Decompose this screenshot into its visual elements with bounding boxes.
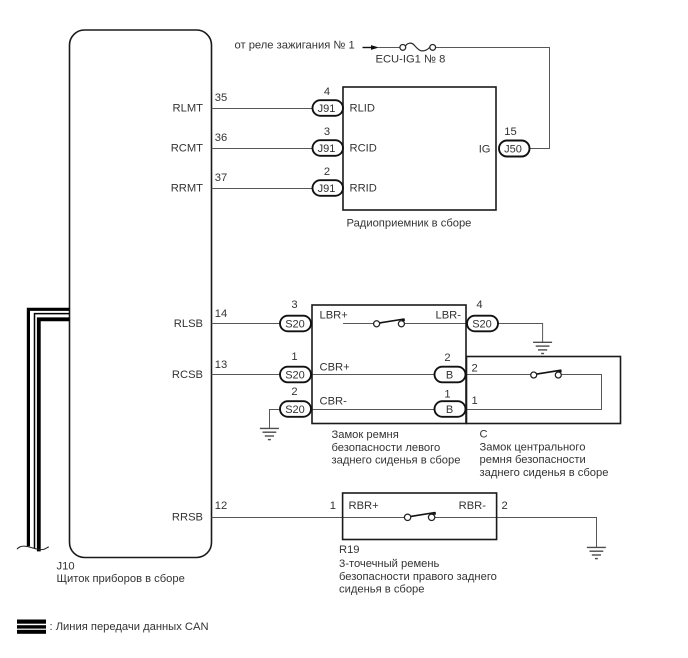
connector J50 pin15 [499,141,530,157]
svg-text:безопасности левого: безопасности левого [332,442,441,454]
svg-text:Щиток приборов в сборе: Щиток приборов в сборе [57,573,185,585]
svg-text:CBR-: CBR- [320,396,348,408]
combination meter block J10 [70,30,212,558]
svg-text:заднего сиденья в сборе: заднего сиденья в сборе [332,455,461,467]
svg-text:J91: J91 [318,183,336,195]
connector S20 pin3 [280,316,311,332]
svg-text:36: 36 [215,132,227,144]
wire RCSB row [212,374,282,376]
svg-text:заднего сиденья в сборе: заднего сиденья в сборе [480,467,609,479]
svg-text:15: 15 [504,126,516,138]
connector J91 pin4 [313,100,344,116]
connector J91 pin2 [313,180,344,196]
svg-text:3: 3 [324,126,330,138]
svg-text:RRSB: RRSB [172,512,203,524]
wire CBR+ row [311,374,435,376]
svg-text:сиденья в сборе: сиденья в сборе [339,584,425,596]
wire LBR+ inside belt box [343,323,374,325]
svg-text:RCID: RCID [350,143,377,155]
ground bottom right [587,547,606,558]
svg-text:RLSB: RLSB [174,318,203,330]
R19 seat belt box [343,493,497,540]
svg-text:J50: J50 [504,144,522,156]
svg-text:Радиоприемник в сборе: Радиоприемник в сборе [347,218,472,230]
svg-text:12: 12 [215,500,227,512]
wire LBR- to S20 pin4 [404,323,467,325]
svg-text:3: 3 [291,299,297,311]
svg-text:S20: S20 [285,319,305,331]
wire RRMT row [212,188,314,190]
CAN bus line middle stripe [35,314,70,549]
svg-text:RRMT: RRMT [171,183,203,195]
svg-text:35: 35 [215,92,227,104]
svg-text:2: 2 [291,386,297,398]
svg-text:1: 1 [330,500,336,512]
svg-text:14: 14 [215,308,227,320]
wire C box switch to right loop [466,375,602,410]
svg-text:J10: J10 [57,561,75,573]
wire CBR- row [311,409,435,411]
wire RBR+ inside R19 [343,517,405,519]
svg-text:IG: IG [479,144,491,156]
svg-text:RBR+: RBR+ [349,500,379,512]
svg-text:S20: S20 [472,319,492,331]
svg-text:безопасности правого заднего: безопасности правого заднего [339,571,497,583]
fuse ECU-IG1 [400,45,406,51]
CAN bus line outer stripe [28,309,69,546]
svg-text:S20: S20 [285,404,305,416]
svg-text:1: 1 [444,389,450,401]
svg-text:CBR+: CBR+ [320,362,350,374]
connector B pin1 [435,401,466,417]
svg-text:1: 1 [291,351,297,363]
svg-text:C: C [480,429,488,441]
connector J91 pin3 [313,140,344,156]
svg-text:2: 2 [444,352,450,364]
wire C box pin2 to switch [466,374,531,376]
svg-text:RBR-: RBR- [459,500,487,512]
connector S20 pin4 [467,316,498,332]
svg-text:LBR+: LBR+ [320,310,348,322]
wire CBR- to ground [270,410,281,429]
wire RBR- to ground [435,518,597,548]
ground right of S20 pin4 [533,342,552,353]
switch in C box [531,372,537,378]
wire RLSB row [212,323,282,325]
svg-text:1: 1 [472,395,478,407]
connector B pin2 [435,367,466,383]
svg-text:: Линия передачи данных CAN: : Линия передачи данных CAN [50,621,209,633]
svg-text:RLID: RLID [350,103,376,115]
svg-text:J91: J91 [318,143,336,155]
center seat belt buckle C box [467,357,621,424]
rear seat belt buckle LH box [312,305,466,424]
svg-text:RCSB: RCSB [172,369,203,381]
svg-text:RCMT: RCMT [171,143,203,155]
svg-text:2: 2 [472,363,478,375]
svg-text:4: 4 [476,299,482,311]
svg-text:J91: J91 [318,103,336,115]
svg-text:ремня безопасности: ремня безопасности [480,454,586,466]
svg-text:37: 37 [215,172,227,184]
switch in LBR row [374,321,380,327]
connector S20 pin1 [280,367,311,383]
wire RCMT row [212,148,314,150]
svg-text:RLMT: RLMT [173,103,204,115]
svg-text:3-точечный ремень: 3-точечный ремень [339,558,440,570]
wire S20 pin4 to ground [498,324,543,343]
svg-text:от реле зажигания № 1: от реле зажигания № 1 [235,40,355,52]
CAN bus line inner stripe [39,319,70,551]
CAN bus torn-end wave [17,546,49,550]
radio receiver box [343,87,496,210]
svg-text:B: B [446,404,453,416]
wire fuse to corner and down to J50 [436,48,550,149]
svg-text:S20: S20 [285,370,305,382]
svg-text:4: 4 [324,86,330,98]
legend CAN bars [17,620,46,634]
svg-text:LBR-: LBR- [436,310,462,322]
svg-text:2: 2 [324,166,330,178]
wire arrow tip to fuse [379,47,401,49]
svg-text:B: B [446,370,453,382]
svg-text:2: 2 [502,500,508,512]
connector S20 pin2 [280,401,311,417]
arrow from ignition relay [363,47,372,49]
wire RRSB row [212,517,343,519]
svg-text:R19: R19 [339,544,360,556]
svg-text:Замок ремня: Замок ремня [332,429,399,441]
svg-text:ECU-IG1 № 8: ECU-IG1 № 8 [376,54,446,66]
wire RLMT row [212,108,314,110]
ground below CBR- S20 [260,428,279,439]
switch in R19 box [404,514,410,520]
svg-text:Замок центрального: Замок центрального [480,441,586,453]
svg-text:RRID: RRID [350,183,377,195]
svg-text:13: 13 [215,359,227,371]
